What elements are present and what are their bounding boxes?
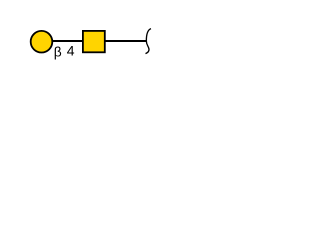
Gal yellow circle [31,31,53,53]
reducing-end wavy bracket [146,29,152,54]
svg-text:4: 4 [67,43,75,59]
GalNAc yellow square [83,31,105,52]
wire Gal to GalNAc [52,40,84,42]
svg-text:β: β [54,44,62,59]
wire GalNAc to reducing end [104,40,147,42]
